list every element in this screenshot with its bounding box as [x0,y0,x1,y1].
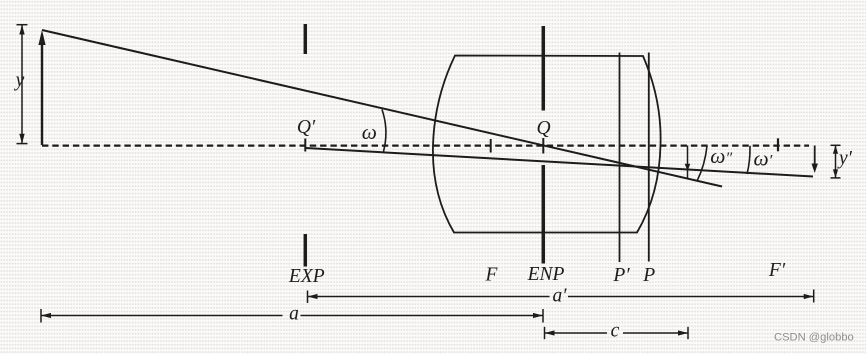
svg-text:Q′: Q′ [297,117,316,138]
svg-text:a: a [289,304,299,325]
svg-text:ω″: ω″ [710,144,732,168]
svg-text:y′: y′ [837,148,853,169]
svg-text:ENP: ENP [527,264,565,285]
svg-text:F′: F′ [768,260,786,281]
svg-text:a′: a′ [552,285,567,306]
svg-text:ω′: ω′ [754,147,773,171]
svg-text:Q: Q [536,118,550,139]
svg-text:P′: P′ [612,265,630,286]
svg-text:ω: ω [362,120,377,144]
svg-text:CSDN @globbo: CSDN @globbo [774,332,854,344]
svg-text:F: F [485,265,499,286]
svg-text:y: y [14,70,25,91]
svg-text:P: P [642,265,655,286]
svg-text:EXP: EXP [288,266,325,287]
svg-text:c: c [611,321,620,342]
